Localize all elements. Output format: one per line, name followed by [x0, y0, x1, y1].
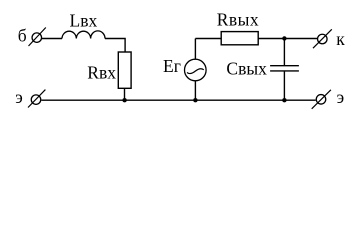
bottom rail wire [41, 99, 315, 101]
svg-text:Rвых: Rвых [217, 10, 259, 30]
capacitor Свых [270, 66, 299, 71]
svg-text:э: э [15, 87, 23, 107]
wire Ег to Rвых [195, 38, 221, 40]
svg-text:б: б [18, 26, 27, 46]
terminal б [29, 28, 46, 47]
wire Ег top [194, 39, 196, 60]
svg-text:э: э [337, 87, 345, 107]
terminal э right [312, 90, 331, 109]
resistor Rвх [118, 52, 131, 88]
terminal э left [28, 90, 45, 108]
node junction Rвх/rail [122, 98, 126, 102]
wire capacitor top [283, 39, 285, 66]
node junction top capacitor [282, 36, 286, 40]
wire Rвх to bottom rail [124, 88, 126, 100]
inductor Lвх [62, 31, 105, 39]
svg-text:Lвх: Lвх [70, 10, 98, 30]
svg-text:к: к [336, 29, 345, 49]
wire capacitor bottom [283, 72, 285, 101]
source Ег [185, 59, 207, 81]
node junction Ег/rail [193, 98, 197, 102]
node junction bottom capacitor [282, 98, 286, 102]
svg-text:Ег: Ег [163, 56, 181, 76]
wire inductor to Rвх corner [105, 39, 125, 53]
terminal к [313, 29, 332, 48]
wire Ег bottom [194, 81, 196, 100]
wire б to inductor [42, 38, 62, 40]
resistor Rвых [221, 32, 258, 45]
svg-text:Rвх: Rвх [87, 62, 116, 82]
wire Rвых to terminal к [258, 38, 317, 40]
svg-text:Свых: Свых [226, 59, 267, 79]
